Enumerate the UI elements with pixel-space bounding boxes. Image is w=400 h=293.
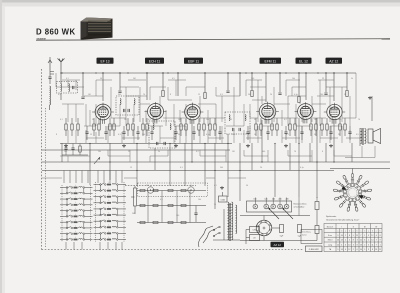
antenna coil L1 [50, 86, 51, 105]
wire [200, 155, 226, 157]
ground [330, 144, 332, 146]
wire [140, 103, 150, 105]
wire [111, 117, 126, 119]
antenna wire [60, 70, 62, 84]
wire [279, 73, 281, 92]
wire [288, 155, 312, 157]
resistor [310, 124, 312, 130]
wire [216, 95, 240, 97]
BF2 primary coil [153, 124, 154, 130]
svg-text:Netzanschluss: Netzanschluss [294, 203, 307, 206]
svg-text:10: 10 [348, 244, 350, 246]
wire [319, 80, 321, 96]
tube V6 AZ12 grids [331, 110, 339, 112]
svg-text:L: L [75, 191, 76, 193]
resistor [214, 124, 216, 130]
svg-text:11: 11 [371, 244, 373, 246]
wire [301, 126, 303, 143]
svg-text:14: 14 [341, 235, 343, 237]
wire [132, 118, 134, 124]
wire [349, 96, 351, 104]
socket pin 2 [266, 233, 268, 235]
wire [109, 143, 111, 180]
wire [159, 96, 161, 104]
resistor [255, 124, 257, 130]
wire [246, 137, 262, 139]
svg-text:Kurz: Kurz [328, 234, 332, 237]
wire [191, 120, 193, 162]
svg-text:200: 200 [146, 185, 149, 187]
svg-text:50k: 50k [220, 167, 223, 169]
wire [260, 118, 262, 124]
svg-text:Lang: Lang [328, 244, 332, 246]
wire [249, 126, 251, 143]
resistor R3 [251, 91, 253, 97]
wire [84, 95, 103, 97]
wire [349, 104, 351, 126]
wire [333, 119, 335, 162]
resistor [93, 124, 95, 130]
wire [252, 99, 266, 101]
wire [359, 128, 361, 146]
svg-text:0,1: 0,1 [214, 185, 217, 187]
wire [333, 73, 335, 101]
wire [341, 87, 343, 96]
svg-text:1M: 1M [88, 94, 91, 96]
bus [42, 170, 334, 172]
wire [223, 209, 225, 240]
svg-text:b: b [341, 231, 342, 233]
wire [199, 126, 201, 143]
svg-text:6: 6 [355, 196, 356, 198]
svg-text:L: L [75, 225, 76, 227]
svg-text:1M: 1M [232, 151, 235, 153]
left lower cluster capacitor Ca [64, 147, 67, 149]
tube label plate EFM 11 [260, 58, 282, 64]
wire [298, 118, 300, 197]
svg-text:a: a [345, 231, 346, 233]
wire [311, 104, 313, 122]
wire [289, 118, 291, 124]
wire [198, 103, 216, 105]
svg-text:10: 10 [360, 249, 362, 251]
svg-text:7: 7 [360, 235, 361, 237]
wire [341, 126, 343, 143]
svg-text:8: 8 [322, 151, 323, 153]
wire [119, 73, 121, 90]
tube V5 EL12 cathode [303, 115, 308, 117]
wire [245, 80, 247, 96]
tap feed wire [279, 198, 281, 205]
wire [204, 73, 206, 92]
svg-text:5: 5 [364, 249, 365, 251]
wire [271, 118, 273, 124]
capacitor [329, 131, 332, 133]
S1 contact row 1 [60, 186, 93, 188]
svg-text:5: 5 [368, 244, 369, 246]
svg-text:25: 25 [128, 151, 130, 153]
svg-text:0,5: 0,5 [356, 134, 359, 136]
ground [221, 186, 223, 188]
wire [67, 130, 69, 143]
svg-text:5: 5 [356, 194, 357, 196]
wire [133, 104, 135, 122]
tap feed wire [272, 198, 274, 205]
svg-text:300: 300 [118, 94, 121, 96]
wire [199, 150, 201, 156]
svg-text:12: 12 [348, 249, 350, 251]
svg-text:13: 13 [360, 244, 362, 246]
wire [315, 118, 317, 124]
socket J1 [147, 187, 153, 193]
svg-text:300: 300 [338, 119, 341, 121]
svg-text:300: 300 [262, 151, 265, 153]
svg-text:12: 12 [371, 235, 373, 237]
wire [77, 118, 79, 124]
wire [207, 130, 209, 143]
svg-text:10: 10 [347, 193, 349, 195]
resistor [294, 124, 296, 130]
wire [42, 177, 62, 179]
wire [227, 73, 229, 90]
wire [255, 118, 257, 124]
wire [243, 150, 245, 156]
S2 contact row 10 [94, 238, 127, 240]
wire [199, 104, 201, 122]
resistor [65, 124, 67, 130]
capacitor [348, 131, 351, 133]
wire [214, 143, 216, 209]
svg-text:6: 6 [345, 244, 346, 246]
earth lead dotted [44, 108, 46, 248]
tube V3 EBF11 side leads [182, 111, 185, 113]
tube V4 EFM11 envelope [259, 103, 276, 120]
IF transformer BF3 box [225, 112, 250, 134]
wire [125, 96, 127, 126]
wire [355, 73, 357, 104]
svg-text:0,1: 0,1 [60, 119, 63, 121]
wire [243, 104, 245, 126]
socket pin 5 [257, 225, 259, 227]
wire [281, 110, 283, 126]
svg-text:1: 1 [353, 188, 354, 190]
svg-text:20: 20 [178, 134, 180, 136]
tube label plate ECH 11 [145, 58, 164, 64]
wire [159, 126, 161, 143]
svg-text:8: 8 [372, 249, 373, 251]
wire [273, 104, 275, 122]
wire [267, 150, 269, 162]
wire [257, 126, 259, 143]
svg-text:L: L [75, 214, 76, 216]
wire [113, 118, 115, 124]
wire [62, 79, 80, 81]
junction dots [61, 72, 62, 73]
capacitor [136, 131, 139, 133]
svg-text:10k: 10k [292, 78, 295, 80]
svg-text:0,8A: 0,8A [252, 229, 257, 232]
svg-text:L: L [75, 220, 76, 222]
socket J2 [188, 187, 194, 193]
bus right [330, 168, 390, 170]
wire [150, 86, 166, 88]
wire [61, 143, 63, 162]
svg-text:a: a [337, 231, 338, 233]
svg-text:8: 8 [170, 94, 171, 96]
svg-text:D 860 WK: D 860 WK [309, 249, 320, 251]
wire [142, 118, 144, 124]
S1 contact row 3 [60, 198, 93, 200]
wire [246, 79, 262, 81]
wire [126, 95, 147, 97]
tube V4 EFM11 grids [264, 109, 272, 111]
svg-text:Durchlass-: Durchlass- [302, 231, 311, 234]
wire [292, 86, 306, 88]
socket pin 6 [260, 221, 262, 223]
resistor [127, 124, 129, 130]
wire [286, 79, 300, 81]
wheel feed wire [352, 169, 354, 175]
tube V1 EF13 electrode ring [98, 107, 109, 118]
wire [200, 117, 225, 119]
wire [86, 137, 104, 139]
svg-text:50: 50 [246, 185, 248, 187]
wire [326, 86, 347, 88]
resistor [198, 124, 200, 130]
tube label plate EL 12 [296, 58, 312, 64]
wire [298, 197, 300, 216]
wire [243, 130, 245, 143]
wire [319, 96, 321, 126]
svg-text:2: 2 [345, 235, 346, 237]
wire [173, 104, 175, 126]
wire [289, 143, 291, 170]
svg-text:1: 1 [368, 240, 369, 242]
resistor [142, 124, 144, 130]
svg-text:200: 200 [232, 134, 235, 136]
wire [318, 79, 334, 81]
wire [221, 104, 223, 122]
svg-text:11: 11 [356, 235, 358, 237]
wire [239, 143, 241, 201]
svg-text:100: 100 [64, 151, 67, 153]
svg-text:L: L [75, 202, 76, 204]
svg-text:6: 6 [380, 235, 381, 237]
svg-text:0,3: 0,3 [118, 134, 121, 136]
wire [339, 118, 341, 124]
svg-text:70: 70 [294, 151, 296, 153]
wire [173, 130, 175, 143]
BF2 trimmer 2 [163, 142, 165, 145]
svg-text:b: b [372, 231, 373, 233]
wire [67, 104, 69, 122]
wire [249, 104, 251, 118]
svg-text:AZ 12: AZ 12 [329, 59, 338, 63]
capacitor C5 [278, 92, 281, 94]
ground [285, 144, 287, 146]
wire [89, 110, 91, 126]
wire [326, 118, 328, 124]
wire [168, 99, 192, 101]
wire [346, 73, 348, 90]
ground [123, 144, 125, 146]
wire [228, 177, 246, 179]
note box [301, 230, 322, 244]
antenna coupling capacitor [48, 76, 51, 78]
tube label plate EBF 11 [184, 58, 203, 64]
wire [313, 117, 326, 119]
transformer core hatch [228, 204, 231, 239]
svg-text:0,1: 0,1 [66, 78, 69, 80]
wire [374, 146, 376, 158]
svg-text:12: 12 [337, 244, 339, 246]
voltage tap 2 [264, 204, 269, 209]
tap feed wire [265, 198, 267, 205]
resistor [339, 124, 341, 130]
wire [65, 118, 67, 124]
S2 contact row 4 [94, 201, 127, 203]
tube V4 EFM11 heater [268, 119, 270, 124]
wire [215, 130, 217, 143]
svg-text:0,2: 0,2 [284, 119, 287, 121]
svg-text:Gezeichnete Schalterstellung „: Gezeichnete Schalterstellung „Kurz“ [326, 219, 360, 222]
svg-text:70: 70 [358, 119, 360, 121]
svg-text:70: 70 [143, 94, 145, 96]
wire [265, 73, 267, 102]
wire [341, 96, 343, 122]
antenna symbol A1 [48, 60, 54, 74]
tube V3 EBF11 heater [193, 119, 195, 124]
wire [325, 143, 327, 162]
tube V5 EL12 electrode ring [300, 106, 311, 117]
coil L2 [61, 84, 62, 92]
wire [274, 117, 298, 119]
svg-text:EL 12: EL 12 [299, 59, 308, 63]
wire [165, 110, 167, 126]
svg-text:kurve: kurve [302, 234, 307, 237]
selector arrow 2 [282, 208, 293, 220]
S2 contact row 3 [94, 195, 127, 197]
svg-text:7: 7 [353, 197, 354, 199]
socket pin 1 [269, 229, 271, 231]
AF network row 1 [137, 189, 206, 191]
S1 contact row 9 [60, 232, 93, 234]
svg-text:2: 2 [345, 240, 346, 242]
wire [150, 155, 168, 157]
svg-text:11: 11 [360, 240, 362, 242]
wire [310, 118, 312, 124]
fuse box 1 [250, 227, 260, 233]
wire [333, 150, 335, 156]
tube V4 EFM11 electrode ring [262, 106, 273, 117]
tap feed wire [286, 198, 288, 205]
svg-text:11: 11 [347, 191, 349, 193]
wire [56, 86, 84, 88]
capacitor [174, 131, 177, 133]
svg-text:13: 13 [375, 249, 377, 251]
svg-text:5k: 5k [254, 119, 256, 121]
svg-text:0,2: 0,2 [58, 94, 61, 96]
BF2 secondary coil [170, 124, 171, 130]
tube V6 AZ12 side leads [324, 111, 327, 113]
wire [146, 73, 148, 100]
voltage tap 1 [253, 204, 258, 209]
svg-text:50: 50 [92, 119, 94, 121]
resistor [276, 124, 278, 130]
svg-text:9: 9 [368, 235, 369, 237]
wire [251, 143, 253, 170]
svg-text:a: a [353, 231, 354, 233]
svg-text:10: 10 [337, 240, 339, 242]
capacitor [104, 131, 107, 133]
wire [149, 156, 151, 162]
resistor [132, 124, 134, 130]
wire [84, 125, 96, 127]
wire [110, 96, 112, 118]
wire [227, 134, 229, 197]
svg-text:1k: 1k [254, 134, 256, 136]
main horizontal bus [42, 161, 390, 163]
wire [71, 118, 73, 124]
wire [159, 104, 161, 118]
radio cabinet photo [81, 18, 113, 40]
svg-text:EF 13: EF 13 [100, 59, 109, 63]
tube V3 EBF11 anode [189, 108, 196, 110]
wire [93, 118, 95, 124]
wire [215, 87, 217, 96]
wire [85, 104, 87, 126]
S2 contact row 5 [94, 208, 127, 210]
IF transformer BF2 box [149, 121, 175, 148]
tube label plate EF 13 [97, 58, 114, 64]
wire [244, 155, 268, 157]
wire [262, 125, 274, 127]
wire [330, 125, 342, 127]
svg-text:1k: 1k [190, 185, 192, 187]
svg-text:L: L [75, 185, 76, 187]
tube V1 EF13 heater [103, 119, 105, 124]
wave band switch S2 outline [95, 182, 97, 242]
svg-text:b: b [364, 231, 365, 233]
tone switch dashed box [138, 183, 208, 197]
resistor [180, 124, 182, 130]
svg-text:L: L [75, 208, 76, 210]
resistor [321, 124, 323, 130]
wire [316, 118, 318, 198]
tube V6 AZ12 anode [331, 108, 338, 110]
wire [207, 110, 209, 126]
wire [163, 117, 185, 119]
wire [276, 118, 278, 124]
svg-text:4: 4 [341, 244, 342, 246]
wire [295, 104, 297, 126]
svg-text:L: L [109, 225, 110, 227]
resistor [260, 124, 262, 130]
wire [288, 95, 306, 97]
IF transformer BF1 box [116, 96, 139, 115]
wire [250, 117, 258, 119]
wire [371, 96, 373, 121]
wire [312, 103, 326, 105]
voltage tap 4 [278, 204, 283, 209]
wave band switch S1 outline [61, 185, 63, 242]
wire [107, 126, 109, 143]
resistor [209, 124, 211, 130]
capacitor [122, 131, 125, 133]
resistor [315, 124, 317, 130]
resistor [326, 124, 328, 130]
wheel wiper arrow 1 [341, 186, 347, 190]
